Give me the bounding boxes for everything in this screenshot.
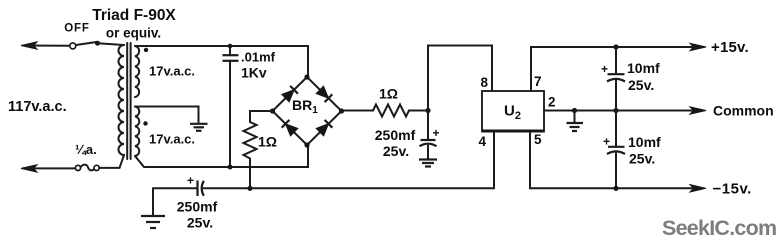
svg-text:1Kv: 1Kv	[241, 65, 267, 81]
capacitor C2 250mf 25v (input filter, negative)	[198, 181, 495, 197]
svg-text:Common: Common	[713, 103, 774, 119]
svg-text:.01mf: .01mf	[241, 50, 276, 65]
wire: resistor to junction	[409, 110, 428, 112]
node: positive unregulated junction	[425, 108, 430, 113]
arrow common	[690, 107, 706, 114]
arrow -15v	[690, 185, 706, 192]
fuse F1 1/4a	[75, 165, 99, 171]
svg-text:1Ω: 1Ω	[258, 134, 277, 150]
wire: secondary top rail to bridge	[135, 46, 308, 77]
ground main	[141, 216, 165, 228]
wire: pin 5 down and right to -15v	[530, 132, 692, 189]
svg-text:10mf: 10mf	[627, 60, 660, 76]
svg-text:5: 5	[534, 132, 542, 147]
svg-text:250mf: 250mf	[177, 199, 218, 215]
node: resistor to negative rail	[247, 186, 252, 191]
svg-text:+: +	[601, 62, 608, 76]
svg-text:SeekIC.com: SeekIC.com	[662, 216, 776, 240]
wire: switch to primary top	[98, 43, 125, 45]
node: +15 rail cap junction	[613, 44, 618, 49]
wire: bridge left vertex to resistor leg	[250, 111, 273, 122]
svg-text:25v.: 25v.	[629, 151, 655, 167]
transformer T1 core	[126, 43, 128, 159]
svg-text:Triad F-90X: Triad F-90X	[92, 7, 176, 24]
wire: AC line bottom lead with arrow	[21, 165, 75, 172]
node: cap to secondary bottom wire	[228, 165, 233, 170]
node: -15 rail cap junction	[613, 186, 618, 191]
diode BR1 bottom-left (points to left)	[282, 120, 298, 136]
svg-text:−15v.: −15v.	[713, 181, 752, 198]
wire: AC line top lead with arrow	[21, 42, 70, 49]
node: pin2 ground junction	[572, 108, 577, 113]
diode BR1 top-right (points to right)	[316, 86, 332, 102]
svg-text:25v.: 25v.	[187, 215, 213, 231]
wire: secondary bottom to bridge bottom	[135, 145, 308, 167]
svg-text:+15v.: +15v.	[711, 39, 749, 56]
wire: pin 4 down to negative rail (rail drawn above)	[493, 132, 495, 189]
capacitor C3 250mf 25v (positive filter)	[420, 111, 437, 159]
svg-text:10mf: 10mf	[628, 134, 661, 150]
svg-text:117v.a.c.: 117v.a.c.	[8, 99, 67, 115]
svg-text:+: +	[603, 135, 610, 149]
svg-text:250mf: 250mf	[375, 127, 416, 143]
capacitor C4 10mf 25v (top)	[607, 47, 625, 111]
transformer T1 secondary bottom winding	[135, 107, 139, 157]
wire: rail to main ground	[152, 188, 154, 215]
svg-text:or equiv.: or equiv.	[106, 26, 161, 41]
node: cap junction on top rail	[228, 44, 233, 49]
svg-text:4: 4	[478, 134, 486, 149]
node: common cap junction	[613, 108, 618, 113]
wire: down to pin2 ground	[574, 111, 576, 123]
wire: bridge right vertex to resistor	[342, 110, 374, 112]
svg-text:OFF: OFF	[64, 23, 89, 35]
svg-text:25v.: 25v.	[628, 77, 654, 93]
negative rail left segment	[153, 187, 197, 189]
transformer T1 primary winding	[119, 45, 124, 155]
svg-text:2: 2	[548, 95, 556, 110]
svg-text:+: +	[187, 174, 194, 188]
diode BR1 top-left (points to top)	[282, 86, 298, 102]
arrow +15v	[690, 43, 706, 50]
ground pin 2	[567, 123, 584, 131]
resistor R1 1ohm vertical	[244, 122, 257, 188]
wire: fuse to primary bottom	[99, 155, 124, 168]
wire: center tap to ground	[135, 107, 199, 123]
diode BR1 bottom-right (points to right)	[316, 120, 332, 136]
wire: pin 7 up and right to +15v	[531, 47, 692, 91]
resistor R2 1ohm horizontal	[373, 105, 409, 117]
svg-text:17v.a.c.: 17v.a.c.	[149, 64, 195, 79]
svg-text:¼a.: ¼a.	[75, 142, 97, 157]
polarity dot secondary bottom	[143, 121, 147, 125]
svg-text:1Ω: 1Ω	[379, 86, 398, 102]
capacitor C1 .01mf 1Kv	[223, 46, 239, 167]
ground center tap	[190, 124, 208, 131]
transformer T1 secondary top winding	[135, 46, 139, 97]
svg-text:8: 8	[480, 75, 488, 90]
svg-text:+: +	[433, 126, 440, 140]
svg-text:7: 7	[534, 74, 542, 89]
svg-text:25v.: 25v.	[383, 143, 409, 159]
switch S1 (OFF)	[70, 41, 100, 49]
wire: junction up and over to pin 8	[428, 46, 492, 111]
polarity dot secondary top	[144, 48, 148, 52]
svg-text:17v.a.c.: 17v.a.c.	[149, 132, 195, 147]
bridge rectifier BR1 frame	[270, 74, 344, 147]
ground bridge cap	[419, 160, 437, 167]
capacitor C5 10mf 25v (bottom)	[607, 111, 625, 189]
op-amp U2 regulator box	[482, 91, 544, 132]
wire: pin 2 common line	[544, 110, 692, 112]
